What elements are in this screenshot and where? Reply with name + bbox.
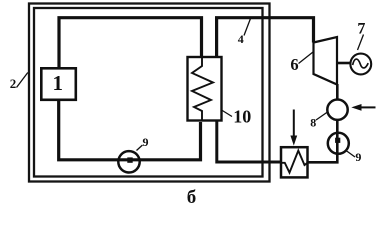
svg-text:7: 7 xyxy=(357,21,365,38)
svg-text:10: 10 xyxy=(233,106,251,126)
svg-text:б: б xyxy=(187,187,197,207)
svg-text:9: 9 xyxy=(355,150,361,164)
svg-text:8: 8 xyxy=(310,116,316,130)
svg-text:4: 4 xyxy=(238,32,244,46)
svg-text:1: 1 xyxy=(53,71,64,95)
svg-text:9: 9 xyxy=(143,135,149,149)
svg-text:6: 6 xyxy=(290,55,298,74)
svg-text:2: 2 xyxy=(10,76,17,91)
